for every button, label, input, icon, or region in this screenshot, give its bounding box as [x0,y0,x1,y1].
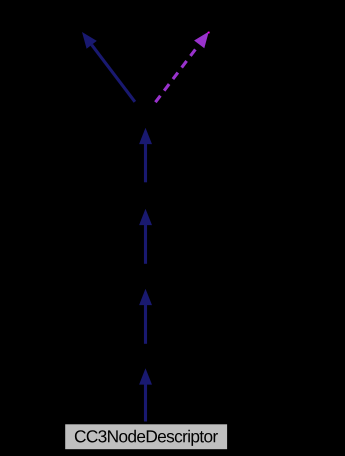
hidden class box C (black on black) [80,263,212,289]
node CC3NodeDescriptor (current class, grey box) [65,424,227,449]
hidden class box A (junction, black on black) [80,100,212,126]
inheritance arrow 2 (box C up to box B, solid midnightblue) [139,209,152,264]
protocol arrow 6 (box A up-right to top-right box, dashed darkorchid) [155,32,208,103]
inheritance arrow 3 (box D up to box C, solid midnightblue) [139,289,152,344]
hidden class box B (black on black) [80,183,212,209]
hidden class box top-left (black on black) [15,6,155,32]
hidden class box top-right (black on black) [175,6,325,32]
hidden class box D (black on black) [80,343,212,369]
inheritance arrow 1 (box B up to box A, solid midnightblue) [139,128,152,183]
magenta tip pixel artifact on dashed arrow [208,32,210,34]
inheritance arrow 5 (box A up-left to top-left box, solid midnightblue) [82,32,135,102]
inheritance arrow 4 (CC3NodeDescriptor up to box D, solid midnightblue) [139,368,152,421]
